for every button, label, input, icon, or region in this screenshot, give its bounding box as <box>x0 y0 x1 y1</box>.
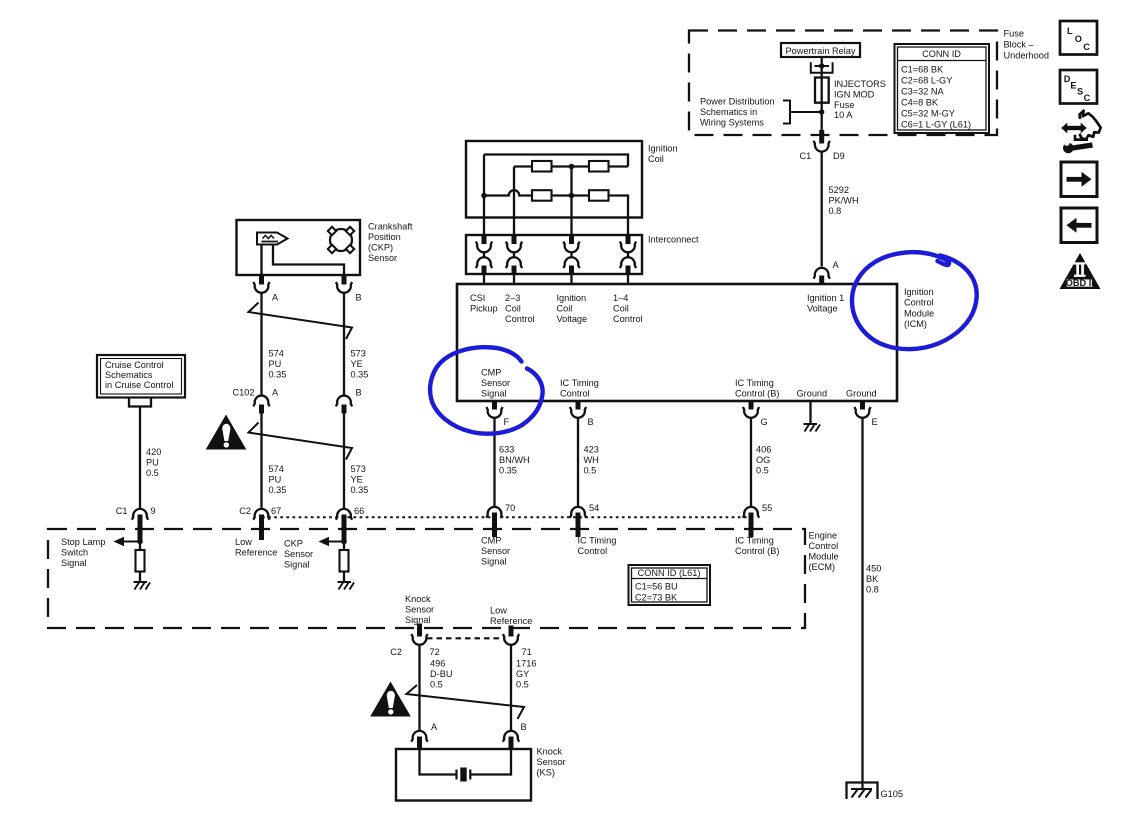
svg-text:WH: WH <box>584 455 599 465</box>
svg-text:Sensor: Sensor <box>368 253 397 263</box>
svg-text:1716: 1716 <box>516 659 536 669</box>
svg-text:67: 67 <box>271 506 281 516</box>
svg-text:Voltage: Voltage <box>807 304 838 314</box>
svg-text:BN/WH: BN/WH <box>499 455 530 465</box>
svg-text:C1=56 BU: C1=56 BU <box>635 582 678 592</box>
svg-text:OG: OG <box>756 455 770 465</box>
svg-text:in Cruise Control: in Cruise Control <box>105 380 173 390</box>
svg-text:YE: YE <box>351 475 363 485</box>
svg-text:573: 573 <box>351 464 366 474</box>
svg-text:(CKP): (CKP) <box>368 243 393 253</box>
svg-text:C1: C1 <box>116 506 128 516</box>
svg-text:Ignition: Ignition <box>557 293 587 303</box>
svg-text:C6=1 L-GY (L61): C6=1 L-GY (L61) <box>901 120 971 130</box>
svg-text:Module: Module <box>904 308 934 318</box>
svg-text:IC Timing: IC Timing <box>578 536 617 546</box>
svg-text:Signal: Signal <box>284 560 310 570</box>
svg-text:C4=8 BK: C4=8 BK <box>901 98 939 108</box>
svg-text:Control: Control <box>904 298 934 308</box>
svg-text:C: C <box>1083 42 1090 52</box>
svg-text:C3=32 NA: C3=32 NA <box>901 87 945 97</box>
svg-text:O: O <box>1075 34 1082 44</box>
svg-text:0.5: 0.5 <box>516 680 529 690</box>
svg-text:BK: BK <box>866 574 879 584</box>
svg-text:B: B <box>521 722 527 732</box>
svg-text:PU: PU <box>146 458 159 468</box>
svg-text:574: 574 <box>269 464 284 474</box>
svg-text:Ground: Ground <box>846 389 877 399</box>
svg-text:Signal: Signal <box>61 558 87 568</box>
svg-text:0.5: 0.5 <box>146 468 159 478</box>
svg-text:CONN ID: CONN ID <box>922 49 961 59</box>
svg-text:PU: PU <box>269 359 282 369</box>
svg-text:Underhood: Underhood <box>1004 51 1049 61</box>
svg-text:Sensor: Sensor <box>481 546 510 556</box>
svg-text:Sensor: Sensor <box>405 605 434 615</box>
svg-text:A: A <box>431 722 438 732</box>
svg-text:CONN ID (L61): CONN ID (L61) <box>638 568 701 578</box>
svg-text:0.5: 0.5 <box>756 466 769 476</box>
svg-text:Power Distribution: Power Distribution <box>700 97 775 107</box>
svg-text:0.35: 0.35 <box>269 370 287 380</box>
svg-text:IGN MOD: IGN MOD <box>834 90 875 100</box>
svg-text:5292: 5292 <box>829 185 849 195</box>
svg-text:C1=68 BK: C1=68 BK <box>901 65 944 75</box>
svg-text:G: G <box>761 417 768 427</box>
svg-text:C102: C102 <box>233 388 255 398</box>
svg-text:55: 55 <box>762 503 772 513</box>
svg-text:9: 9 <box>151 506 156 516</box>
svg-text:Knock: Knock <box>537 747 563 757</box>
svg-text:C2: C2 <box>390 647 402 657</box>
svg-text:0.5: 0.5 <box>584 466 597 476</box>
svg-text:C2: C2 <box>239 506 251 516</box>
svg-text:B: B <box>588 417 594 427</box>
svg-text:Control (B): Control (B) <box>735 389 779 399</box>
svg-text:GY: GY <box>516 669 529 679</box>
svg-text:G105: G105 <box>881 789 903 799</box>
svg-text:1–4: 1–4 <box>613 293 628 303</box>
svg-text:D9: D9 <box>833 151 845 161</box>
svg-text:F: F <box>504 417 510 427</box>
svg-text:A: A <box>272 293 279 303</box>
svg-text:IC Timing: IC Timing <box>735 378 774 388</box>
svg-text:72: 72 <box>430 647 440 657</box>
svg-text:A: A <box>272 388 279 398</box>
svg-text:Sensor: Sensor <box>284 549 313 559</box>
svg-text:Low: Low <box>490 606 507 616</box>
svg-text:Stop Lamp: Stop Lamp <box>61 537 105 547</box>
svg-text:66: 66 <box>354 506 364 516</box>
svg-text:CKP: CKP <box>284 539 303 549</box>
svg-text:Sensor: Sensor <box>481 378 510 388</box>
svg-text:0.35: 0.35 <box>269 485 287 495</box>
svg-text:Powertrain Relay: Powertrain Relay <box>786 46 856 56</box>
svg-text:(ECM): (ECM) <box>809 562 836 572</box>
svg-text:E: E <box>1070 80 1076 90</box>
svg-text:A: A <box>833 260 840 270</box>
svg-text:Control: Control <box>578 546 608 556</box>
svg-text:E: E <box>872 417 878 427</box>
svg-text:0.35: 0.35 <box>351 370 369 380</box>
svg-text:Crankshaft: Crankshaft <box>368 222 413 232</box>
svg-text:Coil: Coil <box>557 304 573 314</box>
svg-text:INJECTORS: INJECTORS <box>834 79 886 89</box>
svg-text:423: 423 <box>584 445 599 455</box>
svg-text:Block –: Block – <box>1004 40 1035 50</box>
svg-text:574: 574 <box>269 349 284 359</box>
svg-text:Pickup: Pickup <box>470 304 498 314</box>
svg-text:Reference: Reference <box>490 616 532 626</box>
svg-text:496: 496 <box>430 659 445 669</box>
svg-text:C2=68 L-GY: C2=68 L-GY <box>901 76 952 86</box>
svg-text:C2=73 BK: C2=73 BK <box>635 593 678 603</box>
svg-text:Engine: Engine <box>809 531 838 541</box>
svg-text:420: 420 <box>146 447 161 457</box>
svg-text:CMP: CMP <box>481 368 501 378</box>
svg-text:Fuse: Fuse <box>834 100 854 110</box>
svg-text:S: S <box>1077 87 1083 97</box>
svg-text:Fuse: Fuse <box>1004 29 1024 39</box>
svg-text:Coil: Coil <box>613 304 629 314</box>
svg-text:Ignition: Ignition <box>648 144 678 154</box>
svg-text:Interconnect: Interconnect <box>648 235 699 245</box>
svg-text:Switch: Switch <box>61 548 88 558</box>
svg-text:PK/WH: PK/WH <box>829 196 859 206</box>
svg-text:0.8: 0.8 <box>866 585 879 595</box>
svg-text:0.35: 0.35 <box>499 466 517 476</box>
svg-text:Knock: Knock <box>405 594 431 604</box>
svg-text:406: 406 <box>756 445 771 455</box>
svg-text:Low: Low <box>235 537 252 547</box>
svg-text:Control: Control <box>613 314 643 324</box>
svg-text:Position: Position <box>368 232 401 242</box>
svg-text:CMP: CMP <box>481 536 501 546</box>
svg-text:Ground: Ground <box>797 389 828 399</box>
svg-text:CSI: CSI <box>470 293 485 303</box>
svg-text:Cruise Control: Cruise Control <box>105 360 164 370</box>
svg-text:573: 573 <box>351 349 366 359</box>
svg-text:Schematics in: Schematics in <box>700 107 757 117</box>
svg-text:Control: Control <box>809 541 839 551</box>
svg-text:D-BU: D-BU <box>430 669 452 679</box>
svg-text:B: B <box>356 388 362 398</box>
svg-text:C5=32 M-GY: C5=32 M-GY <box>901 109 955 119</box>
svg-text:633: 633 <box>499 445 514 455</box>
svg-text:71: 71 <box>522 647 532 657</box>
svg-text:IC Timing: IC Timing <box>735 536 774 546</box>
svg-text:Reference: Reference <box>235 548 277 558</box>
svg-text:Signal: Signal <box>481 557 507 567</box>
svg-text:10 A: 10 A <box>834 110 853 120</box>
svg-text:C1: C1 <box>800 151 812 161</box>
svg-text:54: 54 <box>589 503 599 513</box>
svg-text:0.5: 0.5 <box>430 680 443 690</box>
svg-text:Ignition: Ignition <box>904 287 934 297</box>
svg-text:Control (B): Control (B) <box>735 546 779 556</box>
svg-text:2–3: 2–3 <box>505 293 520 303</box>
svg-text:Schematics: Schematics <box>105 370 153 380</box>
svg-text:OBD II: OBD II <box>1066 278 1094 288</box>
svg-text:0.35: 0.35 <box>351 485 369 495</box>
svg-text:(KS): (KS) <box>537 768 555 778</box>
svg-text:YE: YE <box>351 359 363 369</box>
svg-text:0.8: 0.8 <box>829 206 842 216</box>
svg-text:Coil: Coil <box>505 304 521 314</box>
svg-text:PU: PU <box>269 475 282 485</box>
svg-text:Coil: Coil <box>648 154 664 164</box>
svg-text:70: 70 <box>505 503 515 513</box>
svg-text:C: C <box>1084 93 1091 103</box>
svg-text:450: 450 <box>866 564 881 574</box>
svg-text:(ICM): (ICM) <box>904 319 927 329</box>
svg-text:Wiring Systems: Wiring Systems <box>700 118 764 128</box>
svg-text:L: L <box>1067 26 1073 36</box>
svg-text:Ignition 1: Ignition 1 <box>807 293 844 303</box>
svg-text:Control: Control <box>505 314 535 324</box>
svg-text:Sensor: Sensor <box>537 757 566 767</box>
svg-text:B: B <box>356 293 362 303</box>
svg-text:Control: Control <box>560 389 590 399</box>
svg-text:Voltage: Voltage <box>557 314 588 324</box>
svg-text:Module: Module <box>809 552 839 562</box>
svg-text:IC Timing: IC Timing <box>560 378 599 388</box>
svg-text:Signal: Signal <box>481 389 507 399</box>
